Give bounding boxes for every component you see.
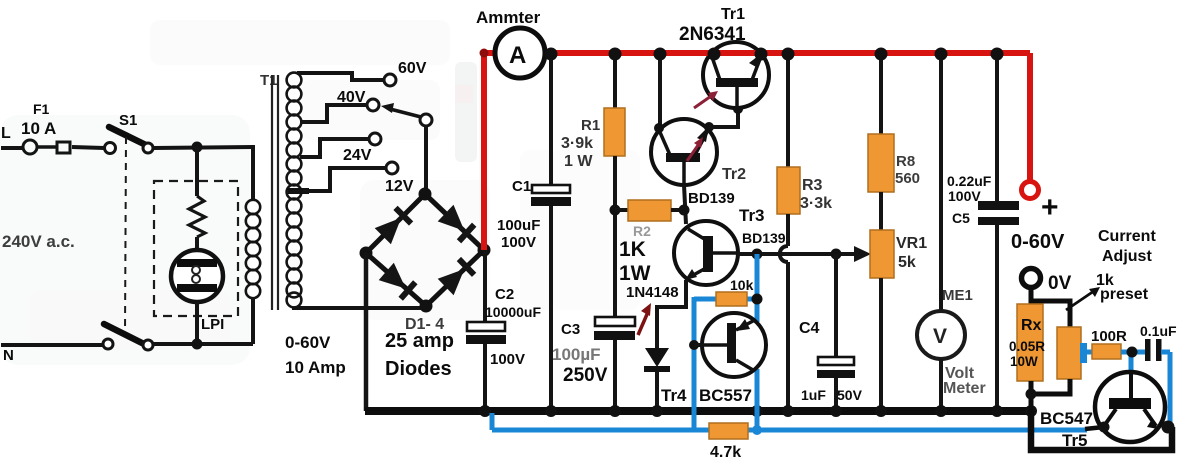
wire 24V tap bbox=[300, 139, 369, 157]
svg-text:0-60V: 0-60V bbox=[285, 333, 331, 352]
annotation arrow to 1N4148 bbox=[638, 312, 648, 335]
capacitor C1 branch wire bbox=[549, 56, 553, 185]
selector arm bbox=[390, 109, 421, 117]
resistor R3 branch with hop over wire bbox=[786, 56, 790, 168]
svg-text:24V: 24V bbox=[343, 147, 372, 164]
node C4 branch bbox=[831, 249, 842, 260]
svg-text:LPI: LPI bbox=[201, 316, 224, 333]
blue wire Tr4 emitter bbox=[755, 299, 760, 322]
blue wire node down to Tr5 base bbox=[1129, 352, 1134, 374]
svg-text:560: 560 bbox=[895, 170, 920, 187]
transistor Tr2 BD139 bbox=[651, 119, 717, 185]
svg-text:10 Amp: 10 Amp bbox=[285, 358, 346, 377]
blue wire preset wiper to 100R bbox=[1087, 350, 1094, 355]
svg-text:VR1: VR1 bbox=[896, 235, 927, 252]
transistor Tr5 BC547 bbox=[1095, 372, 1165, 442]
wire 40V tap bbox=[300, 105, 367, 122]
blue bottom return wire bbox=[490, 413, 495, 430]
svg-text:A: A bbox=[509, 42, 526, 69]
wire lamp to bottom bbox=[195, 302, 199, 344]
svg-text:1K: 1K bbox=[619, 238, 646, 261]
svg-text:240V a.c.: 240V a.c. bbox=[2, 232, 75, 251]
voltmeter ME1 branch bbox=[939, 56, 943, 312]
svg-text:60V: 60V bbox=[398, 60, 427, 77]
node blue junction below Tr4 bbox=[752, 425, 762, 435]
wire secondary bottom to bridge AC bottom bbox=[294, 306, 425, 308]
svg-text:S1: S1 bbox=[119, 112, 137, 129]
resistor 4.7k bbox=[709, 423, 748, 439]
node R2 to Tr2 base junction bbox=[679, 205, 690, 216]
svg-text:3·3k: 3·3k bbox=[800, 195, 832, 212]
fuse F1 bbox=[23, 140, 37, 154]
resistor 100R bbox=[1092, 344, 1121, 359]
switch S1 top pole bbox=[105, 143, 116, 154]
red positive rail bbox=[481, 53, 487, 250]
svg-text:C5: C5 bbox=[952, 210, 970, 226]
wire Tr3 base to VR1 wiper bbox=[738, 252, 856, 256]
svg-text:50V: 50V bbox=[837, 387, 863, 403]
svg-text:0-60V: 0-60V bbox=[1011, 231, 1065, 253]
terminal 12V bbox=[386, 162, 398, 174]
svg-text:10000uF: 10000uF bbox=[485, 304, 541, 320]
node junction above lamp bbox=[192, 142, 203, 153]
svg-text:1uF: 1uF bbox=[801, 387, 826, 403]
terminal 0V output bbox=[1022, 269, 1041, 288]
diode D4 (bottom-right) bbox=[438, 269, 465, 295]
svg-text:Tr2: Tr2 bbox=[722, 166, 746, 183]
capacitor C4 branch bbox=[834, 254, 838, 357]
svg-text:Tr1: Tr1 bbox=[721, 6, 745, 23]
svg-text:100V: 100V bbox=[501, 234, 536, 251]
svg-text:Current: Current bbox=[1098, 228, 1156, 245]
svg-text:R3: R3 bbox=[802, 177, 823, 194]
terminal 40V bbox=[367, 99, 379, 111]
svg-text:R1: R1 bbox=[581, 117, 600, 134]
terminal 60V bbox=[384, 74, 396, 86]
capacitor 0.1uF bbox=[1145, 339, 1151, 361]
svg-text:25 amp: 25 amp bbox=[385, 330, 454, 352]
wire blue rail to Tr5 collector stub bbox=[1085, 427, 1104, 429]
preset 1k bbox=[1057, 327, 1081, 379]
diode D2 (top-right) bbox=[438, 205, 465, 231]
svg-text:Adjust: Adjust bbox=[1102, 248, 1152, 265]
svg-text:F1: F1 bbox=[33, 101, 50, 117]
terminal 24V bbox=[369, 133, 381, 145]
svg-text:1 W: 1 W bbox=[564, 153, 593, 170]
svg-text:+: + bbox=[1041, 191, 1059, 224]
blue wire 100R to node bbox=[1121, 350, 1146, 355]
S1 mechanical link (dashed) bbox=[125, 137, 126, 334]
potentiometer VR1 5k bbox=[870, 230, 894, 278]
svg-text:0V: 0V bbox=[1048, 273, 1072, 294]
svg-text:ME1: ME1 bbox=[942, 287, 973, 304]
svg-text:100R: 100R bbox=[1091, 328, 1127, 345]
svg-text:0.22uF: 0.22uF bbox=[947, 173, 992, 189]
node bridge AC bottom bbox=[420, 300, 433, 313]
wire switch to transformer primary top bbox=[153, 147, 253, 148]
svg-text:10 A: 10 A bbox=[21, 119, 56, 138]
ammeter A bbox=[495, 28, 545, 78]
svg-text:100V: 100V bbox=[490, 351, 525, 368]
svg-text:L: L bbox=[1, 125, 11, 142]
svg-text:C1: C1 bbox=[512, 178, 531, 195]
bridge rectifier D1-4 frame bbox=[366, 194, 425, 253]
svg-text:12V: 12V bbox=[385, 178, 414, 195]
svg-text:N: N bbox=[3, 347, 14, 364]
resistor (ballast, in dashed box) bbox=[189, 196, 205, 237]
node Tr5 emitter bbox=[1162, 421, 1175, 434]
svg-text:R8: R8 bbox=[896, 153, 915, 170]
svg-text:BD139: BD139 bbox=[742, 230, 786, 246]
resistor 10k bbox=[716, 292, 747, 306]
svg-text:Meter: Meter bbox=[943, 380, 986, 397]
diode D3 (bottom-left) bbox=[379, 263, 406, 289]
wire Tr2 emitter to Tr1 base bbox=[709, 110, 738, 127]
node Tr4 base on blue wire bbox=[689, 340, 699, 350]
node lamp bottom junction bbox=[192, 339, 203, 350]
wire Rx bottom / preset bottom bbox=[1029, 381, 1034, 413]
blue wire cap to right vertical bbox=[1161, 350, 1170, 355]
node bridge plus (right) bbox=[478, 244, 491, 257]
node blue junction at Tr5 base bbox=[1127, 347, 1138, 358]
wire Tr3 emitter to diode bbox=[657, 280, 686, 348]
resistor R2 bbox=[615, 208, 630, 212]
svg-text:0.1uF: 0.1uF bbox=[1140, 323, 1177, 339]
wire switch to transformer primary bottom bbox=[153, 342, 253, 346]
diode 1N4148 bbox=[645, 348, 669, 367]
transistor Tr3 BD139 bbox=[674, 221, 738, 285]
svg-text:Rx: Rx bbox=[1021, 317, 1042, 334]
terminal + output bbox=[1022, 182, 1039, 199]
wire selector to bridge AC top bbox=[424, 126, 428, 194]
svg-text:5k: 5k bbox=[898, 254, 916, 271]
svg-text:100uF: 100uF bbox=[497, 217, 540, 234]
junction dots on 0V rail bbox=[479, 405, 491, 417]
selector common terminal bbox=[420, 114, 432, 126]
wire primary bottom bbox=[251, 298, 255, 344]
svg-text:10k: 10k bbox=[730, 277, 754, 293]
svg-text:100V: 100V bbox=[948, 188, 981, 204]
transformer T1 secondary winding bbox=[287, 73, 302, 308]
svg-text:BC557: BC557 bbox=[699, 386, 752, 405]
node Tr2 collector at circle bbox=[654, 123, 664, 133]
wire Tr2 base down to Tr3 bbox=[684, 185, 686, 224]
wire 0V rail to Tr5 emitter (black return) bbox=[1031, 411, 1172, 450]
svg-text:2N6341: 2N6341 bbox=[679, 24, 746, 45]
transformer core bbox=[271, 75, 273, 310]
junction dots on red rail bbox=[545, 48, 558, 61]
resistor Rx 0.05R 10W bbox=[1017, 304, 1043, 381]
wire to primary top bbox=[251, 145, 255, 201]
svg-text:4.7k: 4.7k bbox=[710, 444, 741, 458]
transistor Tr4 BC557 bbox=[702, 313, 766, 377]
annotation arrow in Tr2 bbox=[687, 141, 701, 161]
svg-text:40V: 40V bbox=[337, 89, 366, 106]
svg-text:1W: 1W bbox=[619, 262, 651, 285]
svg-text:T1: T1 bbox=[260, 72, 278, 89]
wire 0V terminal to Rx and preset top bbox=[1029, 288, 1034, 306]
blue wire Tr4 collector down bbox=[755, 369, 760, 430]
node Tr2 emitter at circle bbox=[704, 122, 714, 132]
lamp LP1 bbox=[171, 250, 223, 302]
svg-text:3·9k: 3·9k bbox=[561, 135, 593, 152]
svg-text:Tr4: Tr4 bbox=[661, 386, 687, 405]
capacitor C5 branch bbox=[995, 56, 999, 202]
svg-text:C4: C4 bbox=[799, 320, 820, 337]
svg-text:1N4148: 1N4148 bbox=[626, 284, 679, 301]
dashed enclosure around R and LP1 bbox=[154, 181, 238, 316]
0V bottom rail bbox=[365, 407, 1031, 415]
svg-text:100µF: 100µF bbox=[552, 345, 601, 364]
wire junction down to resistor bbox=[195, 147, 199, 196]
blue wire 10k loop bbox=[694, 297, 718, 302]
svg-text:BC547: BC547 bbox=[1040, 409, 1093, 428]
transistor Tr1 2N6341 bbox=[703, 42, 769, 108]
node R1/R2 junction bbox=[610, 205, 621, 216]
svg-text:V: V bbox=[933, 325, 947, 348]
svg-text:preset: preset bbox=[1100, 286, 1149, 303]
svg-text:Tr3: Tr3 bbox=[739, 206, 765, 225]
wire Tr4 base stub bbox=[694, 343, 704, 347]
node Tr5 collector bbox=[1099, 422, 1110, 433]
resistor R8 branch bbox=[879, 56, 883, 136]
node 10k right junction bbox=[752, 294, 763, 305]
svg-text:10W: 10W bbox=[1010, 354, 1038, 369]
diode D1 (top-left) bbox=[375, 218, 402, 245]
annotation arrow in Tr1 bbox=[694, 94, 714, 108]
wire neutral N input bbox=[1, 343, 103, 347]
node bridge AC top bbox=[419, 188, 432, 201]
resistor R1 branch bbox=[613, 56, 617, 110]
transformer T1 primary winding bbox=[246, 200, 260, 298]
switch S1 bottom pole bbox=[103, 339, 113, 349]
blue wire Tr3 base node down bbox=[755, 254, 760, 299]
secondary tap bar bbox=[288, 188, 309, 194]
svg-text:BD139: BD139 bbox=[688, 190, 735, 207]
node Tr3 base / blue branch bbox=[752, 249, 763, 260]
capacitor C2 branch wire bbox=[483, 250, 487, 323]
wire bridge minus to 0V rail bbox=[364, 253, 369, 411]
wire rail to Tr2 collector bbox=[658, 56, 662, 128]
svg-text:Diodes: Diodes bbox=[385, 358, 452, 380]
svg-text:250V: 250V bbox=[563, 365, 608, 386]
svg-text:C3: C3 bbox=[561, 321, 580, 338]
wire 12V tap bbox=[303, 168, 386, 191]
wire fuse to switch bbox=[72, 147, 104, 148]
preset wiper (blue) bbox=[1080, 343, 1087, 363]
svg-text:0.05R: 0.05R bbox=[1009, 339, 1045, 354]
wire resistor to lamp bbox=[195, 237, 199, 251]
node bridge minus (left) bbox=[360, 247, 373, 260]
svg-text:Ammter: Ammter bbox=[476, 8, 541, 27]
svg-text:R2: R2 bbox=[633, 223, 651, 239]
svg-text:C2: C2 bbox=[495, 286, 514, 303]
node bridge plus dot top of red bbox=[480, 49, 489, 58]
wire 60V tap bbox=[297, 73, 384, 80]
capacitor C3 plates bbox=[595, 317, 635, 326]
blue wire left vertical (Tr4 base line) bbox=[692, 297, 697, 430]
annotation arrow to preset bbox=[1066, 291, 1094, 310]
wire live L input bbox=[1, 146, 23, 150]
